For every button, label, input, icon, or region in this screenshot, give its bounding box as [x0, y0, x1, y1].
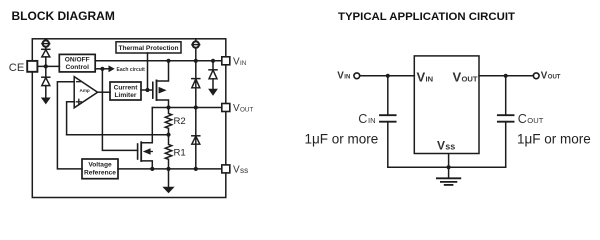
node VSS rail junction	[447, 165, 451, 169]
node ESD on VOUT rail	[194, 105, 198, 109]
wire feedback line	[67, 134, 169, 136]
svg-text:R2: R2	[174, 116, 186, 127]
wire ON/OFF down to M2 gate	[102, 69, 137, 151]
wire VSS rail	[118, 168, 222, 170]
svg-text:V: V	[233, 103, 240, 114]
svg-text:Control: Control	[65, 64, 89, 71]
svg-text:R1: R1	[174, 147, 186, 158]
wire limiter to gate	[141, 89, 152, 91]
svg-text:V: V	[541, 70, 548, 81]
svg-text:CE: CE	[9, 62, 25, 74]
svg-text:Limiter: Limiter	[115, 92, 137, 99]
outer block box	[32, 39, 226, 198]
current source CS2	[192, 39, 200, 61]
wire VIN input	[360, 75, 415, 77]
wire amp output	[98, 91, 110, 93]
svg-text:Amp: Amp	[80, 88, 90, 93]
svg-text:Voltage: Voltage	[88, 162, 112, 169]
svg-text:V: V	[233, 56, 240, 67]
label VSS inside	[437, 138, 455, 152]
current source CS1	[42, 40, 50, 46]
IC box U6	[414, 56, 479, 154]
pin VIN	[222, 57, 230, 65]
svg-text:TYPICAL APPLICATION CIRCUIT: TYPICAL APPLICATION CIRCUIT	[338, 11, 515, 23]
diode D4	[192, 136, 200, 144]
diode D3	[192, 79, 200, 88]
svg-text:ON/OFF: ON/OFF	[65, 57, 90, 64]
ground symbol	[437, 178, 460, 185]
svg-text:C: C	[518, 112, 527, 126]
capacitor CIN	[380, 76, 396, 167]
wire thermal to gate node	[147, 53, 149, 90]
wire amp minus input	[57, 82, 82, 169]
svg-text:Current: Current	[114, 84, 139, 91]
resistor R1	[165, 135, 185, 169]
svg-text:IN: IN	[344, 75, 350, 81]
diode D2	[42, 66, 50, 97]
node M2 source on VSS rail	[150, 167, 154, 171]
wire VOUT output	[479, 75, 533, 77]
node CIN junction	[386, 74, 390, 78]
block Current Limiter U4	[110, 82, 141, 100]
node each-circuit junction	[100, 67, 104, 71]
svg-text:ss: ss	[445, 142, 455, 152]
resistor R2	[165, 108, 185, 135]
terminal VIN circle	[354, 73, 360, 79]
wire amp plus input	[67, 102, 75, 135]
label VOUT inside	[453, 69, 478, 84]
label CIN	[358, 112, 375, 126]
wire VSS stub	[448, 154, 450, 179]
svg-text:1μF or more: 1μF or more	[305, 132, 379, 147]
transistor M1 pass PMOS	[153, 61, 169, 108]
pin CE	[27, 61, 37, 72]
node M1 source on VOUT rail	[166, 105, 170, 109]
label VOUT right	[541, 70, 561, 81]
diode D1	[42, 47, 50, 66]
svg-text:OUT: OUT	[527, 116, 543, 125]
diode D5	[209, 61, 217, 89]
transistor M2 discharge NMOS	[138, 142, 153, 169]
node R1 bottom junction	[166, 167, 170, 171]
svg-text:1μF or more: 1μF or more	[517, 132, 591, 147]
block Voltage Reference U5	[82, 159, 118, 179]
node M1 drain on VIN rail	[166, 59, 170, 63]
svg-text:IN: IN	[368, 116, 376, 125]
label COUT	[518, 112, 544, 126]
node feedback junction	[166, 133, 170, 137]
svg-text:ss: ss	[240, 166, 248, 175]
ground arrow A4	[162, 169, 174, 193]
label VIN left	[337, 70, 350, 81]
label VOUT	[233, 103, 253, 114]
node CE junction	[44, 64, 48, 68]
svg-text:Reference: Reference	[84, 169, 116, 176]
arrow each-circuit A3	[109, 65, 115, 72]
svg-text:C: C	[358, 112, 367, 126]
pin VSS	[222, 165, 230, 173]
wire VOUT rail	[152, 107, 222, 109]
node COUT junction	[504, 74, 508, 78]
pin VOUT	[222, 104, 230, 112]
node gate junction	[145, 88, 149, 92]
node CS2 on VIN rail	[194, 59, 198, 63]
svg-text:V: V	[417, 69, 426, 84]
label VIN inside	[417, 69, 434, 84]
svg-text:OUT: OUT	[240, 107, 253, 114]
svg-text:IN: IN	[426, 75, 434, 84]
svg-text:OUT: OUT	[462, 75, 478, 84]
svg-text:V: V	[337, 70, 344, 81]
wire CE to ON/OFF	[38, 65, 60, 67]
capacitor COUT	[498, 76, 514, 167]
block Thermal Protection U3	[116, 42, 181, 53]
arrow to VOUT A2	[208, 89, 218, 96]
svg-text:Thermal Protection: Thermal Protection	[118, 45, 178, 52]
arrow to VSS A1	[41, 98, 51, 105]
terminal VOUT circle	[533, 73, 539, 79]
wire bottom rail	[388, 166, 506, 168]
svg-text:V: V	[233, 165, 240, 176]
wire VIN rail	[95, 60, 222, 62]
wire VOUT to M2 drain	[141, 108, 152, 143]
svg-text:V: V	[453, 69, 462, 84]
label VSS	[233, 165, 248, 176]
svg-text:IN: IN	[240, 60, 247, 67]
block ON/OFF Control U2	[59, 54, 95, 72]
op-amp U1	[74, 77, 97, 108]
wire each-circuit	[95, 68, 108, 70]
svg-text:BLOCK DIAGRAM: BLOCK DIAGRAM	[12, 9, 115, 23]
node column2 on VIN rail	[211, 59, 215, 63]
svg-text:V: V	[437, 138, 445, 152]
svg-text:Each circuit: Each circuit	[117, 67, 146, 73]
node ESD on VSS rail	[194, 167, 198, 171]
label VIN	[233, 56, 247, 67]
wire ESD column	[195, 61, 197, 169]
svg-text:OUT: OUT	[548, 75, 561, 81]
